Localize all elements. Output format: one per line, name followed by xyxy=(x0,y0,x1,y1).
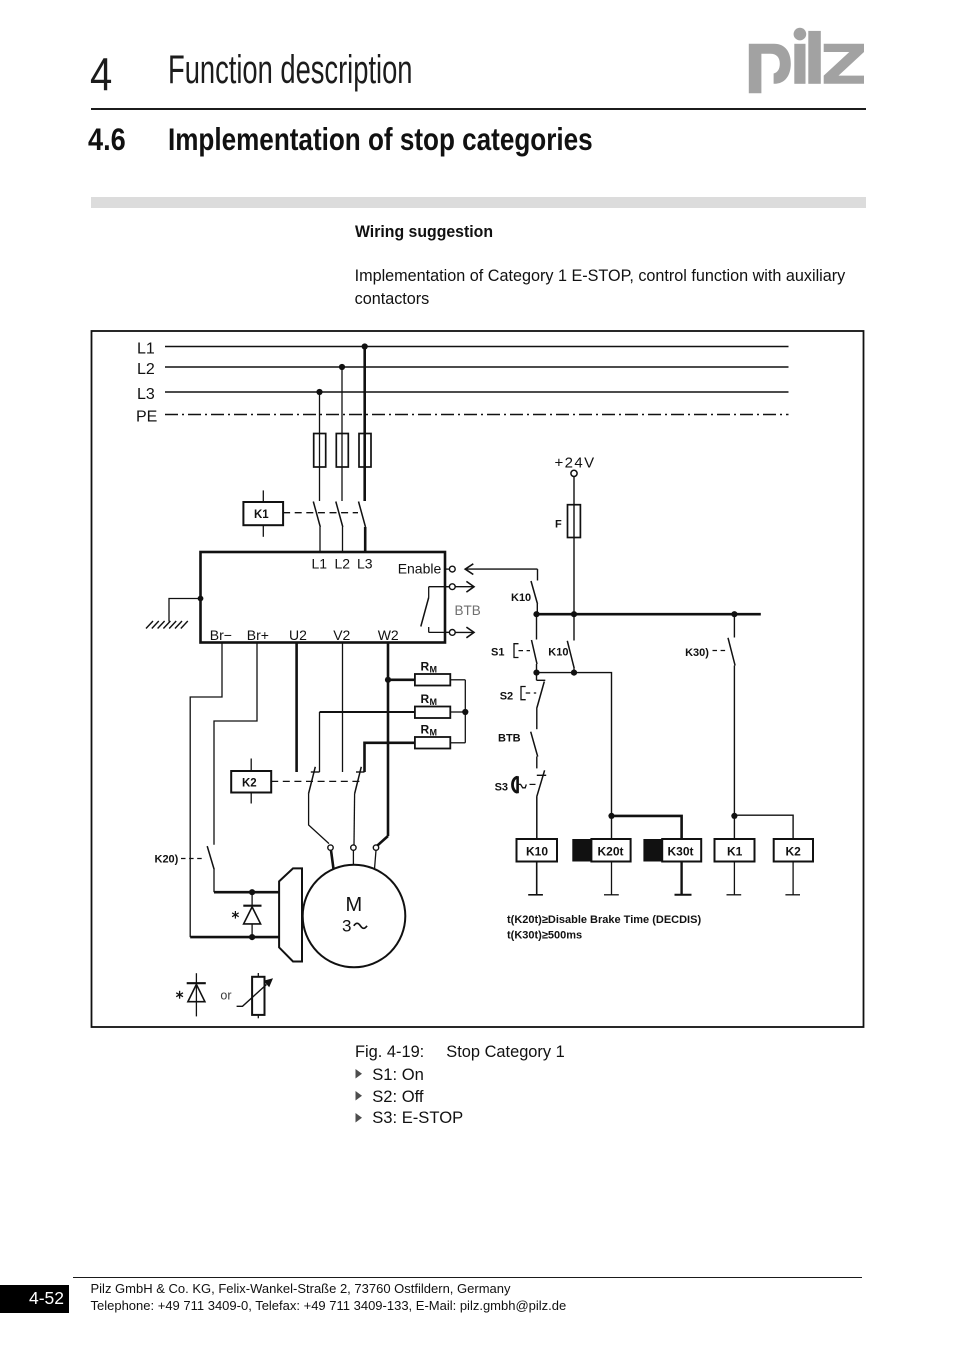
contact K30 xyxy=(685,614,735,816)
svg-text:L2: L2 xyxy=(137,361,155,378)
fuse F xyxy=(555,505,580,538)
svg-text:R: R xyxy=(421,723,430,737)
pilz logo xyxy=(0,0,954,120)
wire to K1 coil xyxy=(733,816,735,839)
relay coil K10 xyxy=(517,839,558,895)
arrow BTB lower out xyxy=(455,627,474,638)
header rule xyxy=(91,108,866,110)
label BTB (gray) xyxy=(455,603,481,618)
svg-text:K1: K1 xyxy=(254,509,269,521)
wire V2 xyxy=(342,643,344,773)
svg-text:M: M xyxy=(430,697,438,707)
junction brake negative xyxy=(249,934,255,940)
wire L1 phase drop xyxy=(363,347,366,502)
svg-text:L2: L2 xyxy=(335,556,351,572)
servo drive block xyxy=(201,552,446,643)
svg-text:K2: K2 xyxy=(786,845,802,859)
wire Br- xyxy=(190,643,222,938)
contact BTB feedback xyxy=(498,732,538,769)
terminal Enable xyxy=(445,566,455,572)
K2 contact (motor V) xyxy=(354,767,365,845)
svg-text:or: or xyxy=(220,989,231,1003)
control bus wire xyxy=(537,613,761,616)
footer rule xyxy=(73,1277,862,1279)
junction bus +24V xyxy=(571,611,577,617)
timing note line 1 xyxy=(507,914,701,926)
K1 main contact (L2 phase) xyxy=(336,502,343,553)
svg-text:U2: U2 xyxy=(289,627,307,643)
chapter number xyxy=(90,51,112,97)
svg-text:K2: K2 xyxy=(242,778,257,790)
junction RM common xyxy=(462,709,468,715)
spare varistor xyxy=(237,973,273,1018)
intro paragraph xyxy=(355,265,865,310)
timer relay coil K20t xyxy=(572,839,630,895)
wire +24V feed xyxy=(573,477,575,615)
junction L3 tap xyxy=(316,389,322,395)
svg-text:3: 3 xyxy=(342,917,351,936)
K2 actuator dashed link xyxy=(271,780,362,782)
wire brake negative xyxy=(190,936,279,939)
svg-text:K30t: K30t xyxy=(668,845,694,859)
junction K1 branch xyxy=(731,813,737,819)
junction L1 tap xyxy=(362,343,368,349)
ground connection node xyxy=(198,596,204,602)
svg-text:S1: S1 xyxy=(491,647,504,659)
page tab xyxy=(0,1285,69,1313)
svg-text:K10: K10 xyxy=(511,592,531,604)
svg-text:L3: L3 xyxy=(137,386,155,403)
svg-text:M: M xyxy=(430,665,438,675)
svg-text:t(K30t)≥500ms: t(K30t)≥500ms xyxy=(507,930,582,942)
svg-text:W2: W2 xyxy=(378,627,399,643)
svg-text:S3: S3 xyxy=(495,782,508,794)
wire L2 phase drop xyxy=(341,367,343,501)
footer address xyxy=(91,1281,567,1314)
spare asterisk marker xyxy=(176,991,183,999)
junction W2 / RM xyxy=(385,677,391,683)
contact K20 brake xyxy=(155,846,215,892)
terminal BTB lower xyxy=(445,630,455,636)
junction brake positive xyxy=(249,889,255,895)
junction bus left xyxy=(533,611,539,617)
wire to K30t coil xyxy=(612,816,682,839)
timing note line 2 xyxy=(507,930,582,942)
svg-text:L1: L1 xyxy=(312,556,328,572)
resistor RM3 xyxy=(365,723,466,773)
chapter title xyxy=(168,50,412,90)
junction S1/K10 left xyxy=(533,670,539,676)
svg-text:t(K20t)≥Disable Brake Time (DE: t(K20t)≥Disable Brake Time (DECDIS) xyxy=(507,914,701,926)
svg-text:K20): K20) xyxy=(155,854,179,866)
contactor coil K2 xyxy=(231,759,271,804)
contact K10 enable xyxy=(511,569,538,614)
wire RM common xyxy=(464,680,466,743)
svg-text:M: M xyxy=(346,894,363,916)
svg-text:K10: K10 xyxy=(526,845,548,859)
pushbutton S2 xyxy=(500,673,546,730)
section number xyxy=(88,124,126,156)
svg-text:R: R xyxy=(421,692,430,706)
motor terminal U1 xyxy=(328,845,334,869)
spare suppressor diode xyxy=(187,973,206,1016)
contactor coil K2 (control) xyxy=(774,839,813,895)
junction L2 tap xyxy=(339,364,345,370)
K2 contact (motor U) xyxy=(309,767,330,844)
K1 main contact (L3 phase) xyxy=(313,502,320,553)
contactor coil K1 xyxy=(243,490,283,536)
junction S1/K10 right xyxy=(571,670,577,676)
suppressor diode across brake xyxy=(243,892,261,937)
svg-text:K1: K1 xyxy=(727,845,743,859)
wiring suggestion heading xyxy=(355,224,493,241)
wire W2 xyxy=(377,643,388,846)
wire brake positive xyxy=(214,891,279,894)
internal BTB relay contact xyxy=(421,587,450,633)
junction bus K30 xyxy=(731,611,737,617)
contact K10 latch xyxy=(548,614,574,672)
resistor RM1 xyxy=(388,660,465,686)
wire Br+ xyxy=(214,643,257,845)
wire to K2 coil xyxy=(734,815,793,839)
net L1 xyxy=(137,341,789,358)
fuse (L1 phase) xyxy=(359,434,371,468)
bullet S3 xyxy=(355,1113,363,1123)
wire Enable with arrow xyxy=(465,564,537,575)
svg-text:Br+: Br+ xyxy=(247,627,269,643)
svg-text:M: M xyxy=(430,728,438,738)
gray bar xyxy=(91,197,866,208)
resistor RM2 xyxy=(320,692,466,772)
junction K20t branch xyxy=(608,813,614,819)
svg-text:Br−: Br− xyxy=(210,627,232,643)
arrow BTB upper out xyxy=(455,581,474,592)
wire U2 xyxy=(295,643,298,773)
motor M 3~ xyxy=(303,865,406,968)
K1 actuator dashed link xyxy=(283,512,358,514)
svg-text:Enable: Enable xyxy=(398,561,442,577)
svg-text:PE: PE xyxy=(136,409,157,426)
E-STOP button S3 xyxy=(495,770,547,839)
bullet S2 xyxy=(355,1091,363,1101)
label or xyxy=(220,989,231,1003)
net PE xyxy=(136,409,789,426)
motor terminal W1 xyxy=(373,845,378,869)
motor brake xyxy=(279,868,302,961)
fuse (L2 phase) xyxy=(336,434,348,468)
bullet S1 xyxy=(355,1069,363,1079)
net L3 xyxy=(137,386,789,403)
svg-text:K30): K30) xyxy=(685,647,709,659)
svg-text:L1: L1 xyxy=(137,341,155,358)
figure caption xyxy=(355,1044,424,1060)
wire to K20t coil xyxy=(611,816,613,839)
timer relay coil K30t xyxy=(643,839,701,895)
svg-text:BTB: BTB xyxy=(455,603,481,618)
svg-text:+24V: +24V xyxy=(555,455,596,472)
svg-text:K10: K10 xyxy=(548,647,568,659)
svg-text:L3: L3 xyxy=(357,556,373,572)
terminal BTB upper xyxy=(445,584,455,590)
svg-text:BTB: BTB xyxy=(498,733,521,745)
pushbutton S1 xyxy=(491,614,537,672)
wire L3 phase drop xyxy=(319,392,321,501)
svg-text:S2: S2 xyxy=(500,691,513,703)
svg-text:R: R xyxy=(421,660,430,674)
K1 main contact (L1 phase) xyxy=(359,502,366,553)
motor terminal V1 xyxy=(351,845,356,865)
wire latch to K20t xyxy=(537,673,612,816)
asterisk marker at diode xyxy=(232,911,239,919)
+24V supply terminal xyxy=(555,455,596,477)
contactor coil K1 (control) xyxy=(715,839,755,895)
section title xyxy=(168,124,593,156)
net L2 xyxy=(137,361,789,378)
ground (earth) symbol xyxy=(146,621,188,629)
svg-text:F: F xyxy=(555,519,562,531)
wire to ground xyxy=(169,599,201,622)
svg-text:V2: V2 xyxy=(333,627,350,643)
svg-text:K20t: K20t xyxy=(598,845,624,859)
fuse (L3 phase) xyxy=(314,434,326,468)
